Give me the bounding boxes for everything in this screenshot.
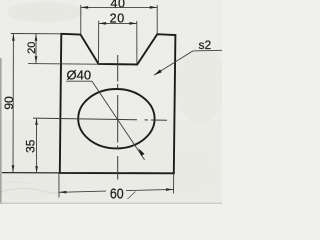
scan edge left (0, 58, 2, 204)
paper background (0, 0, 222, 204)
dim 60 arrow left (59, 191, 67, 194)
dim 60 arrow right (166, 188, 174, 191)
dim 40 arrow left (81, 6, 88, 9)
dim 60 ext line right (173, 174, 175, 194)
dim 40 ext line right (156, 5, 158, 34)
dim 20 top ext line left (98, 21, 100, 64)
svg-text:35: 35 (24, 139, 38, 153)
svg-text:60: 60 (110, 186, 124, 203)
dim 60 ext line left (58, 174, 60, 198)
O40 leader line (92, 81, 145, 160)
dim 40 arrow right (150, 6, 157, 9)
s2 leader arrow (154, 69, 162, 75)
dim 40 line (81, 6, 157, 8)
dim 20 left arrow top (35, 34, 38, 41)
bottom-left shared ext line (2, 172, 60, 174)
dim 90 arrow top (12, 34, 15, 41)
hole circle O40 (78, 89, 154, 148)
svg-text:40: 40 (110, 0, 125, 11)
dim 90 arrow bottom (12, 165, 15, 172)
dim 20 top arrow right (129, 22, 136, 25)
faint paper creases bottom-left (0, 188, 60, 193)
svg-text:20: 20 (26, 42, 38, 54)
vertical centerline (117, 55, 119, 180)
dim 40 ext line left (80, 5, 82, 34)
top-left shared ext line (11, 33, 62, 35)
horizontal centerline (33, 118, 167, 120)
dim 35 arrow bottom (35, 166, 38, 173)
dim 60 line left segment (59, 191, 106, 192)
dim 20 top arrow left (99, 22, 106, 25)
svg-text:Ø40: Ø40 (67, 68, 92, 83)
faint smudges (7, 2, 83, 22)
dim 20 top ext line right (136, 21, 138, 64)
s2 leader shelf (193, 49, 222, 52)
dim 60 line right segment (126, 189, 173, 190)
scan edge bottom (0, 203, 222, 204)
dim 35 line (36, 118, 38, 173)
dim 20 top line (99, 22, 137, 24)
s2 leader line (154, 51, 193, 75)
O40 leader underline (66, 80, 92, 82)
svg-text:90: 90 (2, 96, 16, 110)
dim 20 left line (35, 34, 37, 64)
svg-text:s2: s2 (199, 38, 212, 52)
dim 20 left arrow bottom (35, 56, 38, 63)
notch bottom ext line (28, 63, 99, 66)
stray tick after 60 (128, 192, 136, 200)
part outline (60, 34, 176, 174)
svg-text:20: 20 (110, 12, 125, 26)
dim 90 line (12, 34, 14, 173)
O40 leader arrow (138, 148, 144, 156)
dim 35 arrow top (35, 118, 38, 125)
